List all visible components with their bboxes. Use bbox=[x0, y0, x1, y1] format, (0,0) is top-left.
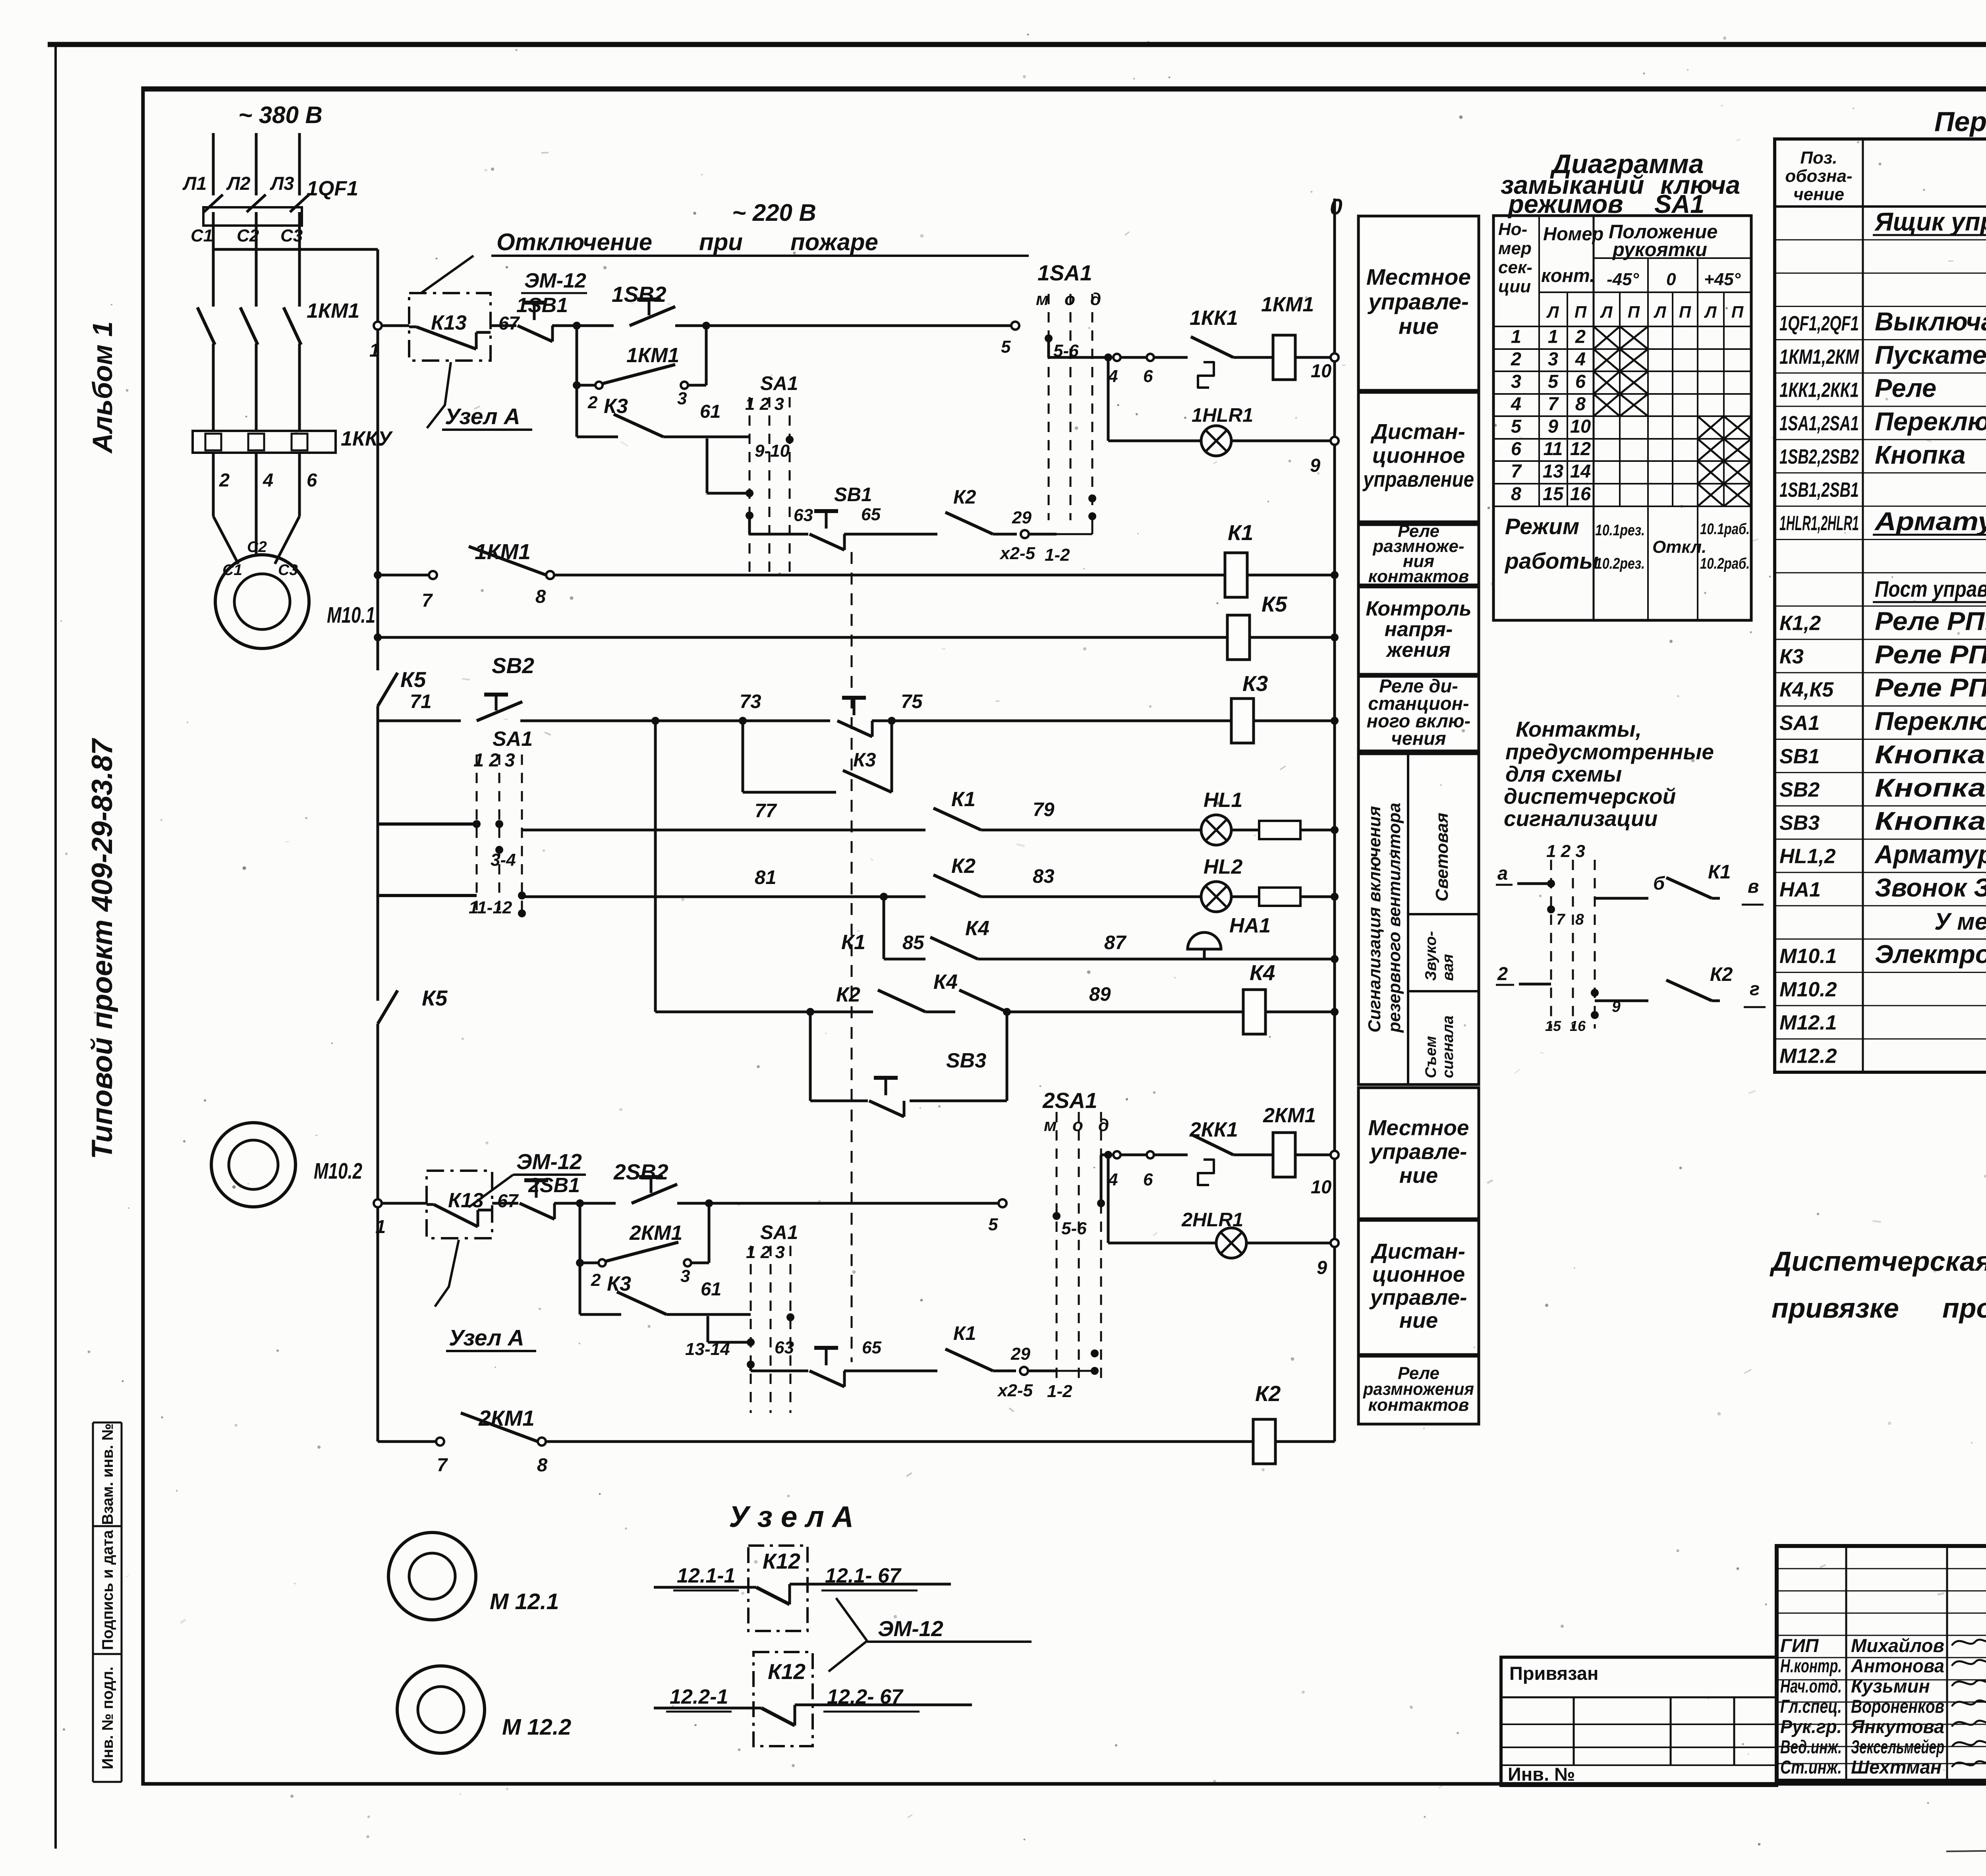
svg-text:управле-: управле- bbox=[1369, 1285, 1467, 1310]
svg-text:К3: К3 bbox=[853, 749, 876, 771]
svg-text:М12.2: М12.2 bbox=[1779, 1045, 1837, 1068]
svg-text:К3: К3 bbox=[607, 1272, 631, 1295]
svg-text:ние: ние bbox=[1399, 314, 1439, 339]
svg-text:1КМ1: 1КМ1 bbox=[475, 539, 531, 564]
svg-text:вая: вая bbox=[1439, 954, 1457, 981]
svg-text:Типовой проект 409-29-83.87: Типовой проект 409-29-83.87 bbox=[86, 738, 118, 1160]
svg-text:Кнопка КЕ-011УЗ, исполн. 4: Кнопка КЕ-011УЗ, исполн. 4 bbox=[1875, 807, 1986, 836]
svg-text:К1: К1 bbox=[841, 931, 865, 954]
svg-text:Л2: Л2 bbox=[226, 173, 250, 194]
svg-text:2КМ1: 2КМ1 bbox=[629, 1222, 682, 1245]
svg-text:С2: С2 bbox=[247, 538, 267, 556]
svg-text:К3: К3 bbox=[604, 395, 628, 418]
svg-text:Взам. инв. №: Взам. инв. № bbox=[99, 1423, 116, 1525]
svg-text:12: 12 bbox=[1570, 438, 1591, 459]
svg-text:1КМ1,2КМ: 1КМ1,2КМ bbox=[1779, 345, 1859, 369]
svg-text:обозна-: обозна- bbox=[1785, 166, 1852, 186]
svg-text:сигнала: сигнала bbox=[1439, 1015, 1457, 1078]
svg-text:3-4: 3-4 bbox=[491, 850, 516, 870]
svg-text:1SВ1,2SВ1: 1SВ1,2SВ1 bbox=[1779, 479, 1859, 502]
svg-text:П: П bbox=[1731, 303, 1744, 321]
svg-text:15: 15 bbox=[1545, 1018, 1561, 1034]
svg-text:работы: работы bbox=[1504, 548, 1599, 574]
svg-text:1SВ1: 1SВ1 bbox=[516, 294, 568, 317]
svg-text:Пускатель: Пускатель bbox=[1875, 340, 1986, 369]
svg-text:SА1: SА1 bbox=[1779, 712, 1820, 735]
svg-text:4: 4 bbox=[1575, 348, 1586, 369]
svg-text:1-2: 1-2 bbox=[1045, 545, 1070, 565]
svg-text:К2: К2 bbox=[951, 855, 976, 878]
svg-text:1SB2: 1SB2 bbox=[612, 282, 667, 307]
svg-text:контактов: контактов bbox=[1368, 1395, 1469, 1415]
svg-text:Привязан: Привязан bbox=[1509, 1663, 1598, 1684]
svg-text:Но-: Но- bbox=[1498, 220, 1527, 239]
svg-text:11: 11 bbox=[1544, 438, 1563, 459]
svg-text:У механизма: У механизма bbox=[1934, 908, 1986, 935]
svg-text:2: 2 bbox=[1575, 326, 1586, 347]
svg-text:Нач.отд.: Нач.отд. bbox=[1780, 1675, 1842, 1697]
svg-text:Контроль: Контроль bbox=[1366, 597, 1471, 620]
svg-text:Реле РПУ-2-М36420УЗБ, U~220В: Реле РПУ-2-М36420УЗБ, U~220В bbox=[1875, 607, 1986, 636]
svg-text:7: 7 bbox=[437, 1454, 448, 1475]
svg-text:10.1раб.: 10.1раб. bbox=[1700, 521, 1750, 538]
svg-text:1-2: 1-2 bbox=[1047, 1382, 1072, 1401]
svg-text:73: 73 bbox=[740, 691, 761, 712]
svg-text:1: 1 bbox=[375, 1216, 386, 1237]
svg-text:2: 2 bbox=[219, 469, 230, 490]
svg-text:К4: К4 bbox=[1250, 960, 1275, 985]
svg-text:ЭМ-12: ЭМ-12 bbox=[524, 269, 586, 292]
svg-text:63: 63 bbox=[794, 506, 813, 525]
svg-text:0: 0 bbox=[1330, 194, 1343, 220]
svg-text:Съем: Съем bbox=[1422, 1036, 1439, 1078]
svg-text:К1: К1 bbox=[1228, 520, 1253, 545]
svg-text:Режим: Режим bbox=[1505, 514, 1579, 539]
svg-text:М 12.1: М 12.1 bbox=[490, 1589, 559, 1614]
svg-text:8: 8 bbox=[537, 1454, 548, 1475]
svg-text:Л: Л bbox=[1704, 303, 1717, 321]
svg-text:8: 8 bbox=[535, 586, 546, 607]
svg-text:2SА1: 2SА1 bbox=[1042, 1088, 1097, 1113]
svg-text:К1: К1 bbox=[951, 788, 976, 811]
svg-text:чения: чения bbox=[1391, 728, 1446, 749]
svg-text:пожаре: пожаре bbox=[790, 229, 878, 255]
svg-text:К4,К5: К4,К5 bbox=[1779, 678, 1834, 701]
svg-text:Контакты,: Контакты, bbox=[1516, 717, 1642, 741]
svg-text:Л: Л bbox=[1546, 303, 1559, 321]
svg-text:1SA1: 1SA1 bbox=[1037, 261, 1092, 285]
svg-text:75: 75 bbox=[901, 691, 923, 712]
svg-text:SA1: SA1 bbox=[760, 373, 798, 394]
svg-text:С1: С1 bbox=[191, 226, 213, 245]
svg-text:79: 79 bbox=[1033, 799, 1055, 820]
svg-text:4: 4 bbox=[1511, 393, 1521, 414]
svg-text:К3: К3 bbox=[1779, 645, 1804, 668]
svg-text:напря-: напря- bbox=[1385, 618, 1453, 641]
svg-text:3: 3 bbox=[1511, 371, 1521, 392]
svg-text:С1: С1 bbox=[222, 562, 242, 579]
svg-text:5: 5 bbox=[1548, 371, 1559, 392]
svg-text:65: 65 bbox=[861, 505, 881, 524]
svg-text:Узел А: Узел А bbox=[445, 404, 520, 429]
svg-text:ГИП: ГИП bbox=[1780, 1635, 1819, 1656]
svg-text:SВ2: SВ2 bbox=[492, 653, 534, 678]
svg-text:SВ1: SВ1 bbox=[1779, 745, 1820, 768]
svg-text:К2: К2 bbox=[1710, 964, 1733, 985]
svg-text:15: 15 bbox=[1543, 483, 1564, 504]
svg-text:Вороненков: Вороненков bbox=[1851, 1696, 1944, 1717]
svg-text:управле-: управле- bbox=[1367, 289, 1469, 315]
svg-text:а: а bbox=[1497, 863, 1508, 884]
svg-text:77: 77 bbox=[755, 800, 777, 822]
svg-text:1КМ1: 1КМ1 bbox=[307, 299, 359, 322]
svg-text:о: о bbox=[1064, 290, 1075, 309]
svg-text:Инв. №: Инв. № bbox=[1508, 1764, 1575, 1785]
svg-text:Н.контр.: Н.контр. bbox=[1780, 1655, 1842, 1676]
svg-text:13: 13 bbox=[1543, 461, 1563, 482]
svg-text:К1: К1 bbox=[1708, 861, 1731, 883]
svg-text:9: 9 bbox=[1317, 1257, 1327, 1278]
svg-text:Л1: Л1 bbox=[182, 173, 207, 194]
svg-text:81: 81 bbox=[755, 867, 777, 888]
svg-text:0: 0 bbox=[1666, 270, 1676, 289]
svg-text:Сигнализация включения: Сигнализация включения bbox=[1365, 806, 1384, 1033]
svg-text:4: 4 bbox=[263, 469, 273, 490]
svg-text:д: д bbox=[1090, 290, 1101, 309]
svg-text:Вед.инж.: Вед.инж. bbox=[1780, 1736, 1842, 1757]
svg-text:SВ3: SВ3 bbox=[946, 1049, 986, 1072]
svg-text:12.2- 67: 12.2- 67 bbox=[827, 1685, 904, 1708]
svg-text:16: 16 bbox=[1570, 483, 1591, 504]
svg-text:Ст.инж.: Ст.инж. bbox=[1780, 1756, 1842, 1778]
svg-text:1 2 3: 1 2 3 bbox=[746, 1243, 785, 1262]
svg-text:Переключатель УП 5314-С398УЗ: Переключатель УП 5314-С398УЗ bbox=[1875, 706, 1986, 735]
svg-text:Диспетчерская: Диспетчерская bbox=[1770, 1246, 1986, 1277]
svg-text:12.2-1: 12.2-1 bbox=[670, 1685, 728, 1708]
svg-text:жения: жения bbox=[1385, 639, 1451, 662]
svg-text:71: 71 bbox=[410, 691, 432, 712]
svg-text:63: 63 bbox=[775, 1338, 794, 1357]
svg-text:Дистан-: Дистан- bbox=[1370, 419, 1465, 444]
svg-text:К1,2: К1,2 bbox=[1779, 612, 1821, 635]
svg-text:6: 6 bbox=[307, 469, 317, 490]
svg-text:д: д bbox=[1098, 1116, 1109, 1135]
svg-text:Гл.спец.: Гл.спец. bbox=[1780, 1696, 1842, 1717]
svg-text:К4: К4 bbox=[965, 917, 989, 940]
svg-text:Звуко-: Звуко- bbox=[1422, 931, 1439, 981]
svg-text:67: 67 bbox=[497, 1190, 519, 1211]
svg-text:НА1: НА1 bbox=[1229, 914, 1271, 937]
svg-text:НL1: НL1 bbox=[1204, 789, 1242, 812]
svg-text:ционное: ционное bbox=[1372, 443, 1465, 468]
svg-text:Поз.: Поз. bbox=[1800, 148, 1837, 168]
svg-text:предусмотренные: предусмотренные bbox=[1505, 739, 1714, 764]
svg-text:1: 1 bbox=[1548, 326, 1558, 347]
svg-text:2: 2 bbox=[1497, 963, 1508, 984]
svg-text:SВ3: SВ3 bbox=[1779, 812, 1820, 835]
svg-text:б: б bbox=[1653, 872, 1665, 894]
svg-text:2КМ1: 2КМ1 bbox=[478, 1406, 535, 1430]
svg-text:У з е л: У з е л bbox=[729, 1500, 824, 1533]
svg-text:М10.2: М10.2 bbox=[1779, 978, 1837, 1001]
svg-text:-45°: -45° bbox=[1607, 270, 1639, 289]
svg-text:7: 7 bbox=[1548, 393, 1559, 414]
svg-text:8: 8 bbox=[1575, 393, 1586, 414]
svg-text:10.1рез.: 10.1рез. bbox=[1595, 522, 1645, 539]
svg-text:13-14: 13-14 bbox=[685, 1339, 730, 1359]
svg-text:5: 5 bbox=[1511, 416, 1522, 437]
svg-text:ЭМ-12: ЭМ-12 bbox=[516, 1149, 582, 1174]
svg-text:85: 85 bbox=[902, 932, 924, 953]
svg-text:С3: С3 bbox=[278, 562, 298, 579]
svg-text:1КК1: 1КК1 bbox=[1190, 307, 1238, 330]
svg-text:Инв. № подл.: Инв. № подл. bbox=[99, 1667, 116, 1770]
svg-text:SА1: SА1 bbox=[760, 1222, 798, 1243]
svg-text:1КМ1: 1КМ1 bbox=[626, 344, 679, 367]
svg-text:Откл.: Откл. bbox=[1652, 537, 1706, 557]
svg-text:89: 89 bbox=[1089, 984, 1111, 1005]
svg-text:А: А bbox=[831, 1500, 854, 1533]
svg-text:SВ1: SВ1 bbox=[834, 484, 872, 506]
svg-text:2SВ2: 2SВ2 bbox=[613, 1160, 668, 1184]
svg-text:М10.2: М10.2 bbox=[314, 1158, 362, 1184]
svg-text:привязке: привязке bbox=[1772, 1293, 1899, 1324]
svg-text:Узел А: Узел А bbox=[449, 1325, 524, 1351]
svg-text:М10.1: М10.1 bbox=[327, 602, 375, 628]
svg-text:х2-5: х2-5 bbox=[997, 1381, 1033, 1400]
svg-text:управление: управление bbox=[1362, 467, 1474, 492]
svg-text:1 2 3: 1 2 3 bbox=[1546, 841, 1585, 861]
svg-text:К2: К2 bbox=[953, 486, 976, 508]
svg-text:при: при bbox=[699, 229, 743, 255]
svg-text:3: 3 bbox=[677, 389, 687, 408]
svg-text:Л: Л bbox=[1654, 303, 1667, 321]
svg-text:2: 2 bbox=[591, 1270, 601, 1290]
svg-text:5: 5 bbox=[988, 1215, 998, 1234]
svg-text:К5: К5 bbox=[400, 667, 427, 692]
svg-text:управле-: управле- bbox=[1369, 1139, 1467, 1164]
svg-text:К12: К12 bbox=[768, 1659, 806, 1684]
svg-text:Выключатель: Выключатель bbox=[1875, 307, 1986, 336]
svg-text:87: 87 bbox=[1104, 932, 1127, 953]
svg-text:61: 61 bbox=[701, 1278, 721, 1299]
svg-text:конт.: конт. bbox=[1541, 265, 1595, 286]
svg-text:Перечень: Перечень bbox=[1934, 106, 1986, 137]
svg-text:м: м bbox=[1036, 290, 1049, 309]
svg-text:11-12: 11-12 bbox=[469, 898, 512, 917]
svg-text:65: 65 bbox=[862, 1338, 881, 1357]
svg-text:10: 10 bbox=[1570, 416, 1591, 437]
svg-text:6: 6 bbox=[1511, 438, 1522, 459]
svg-text:Местное: Местное bbox=[1368, 1116, 1469, 1140]
svg-text:ционное: ционное bbox=[1372, 1262, 1465, 1287]
svg-text:+45°: +45° bbox=[1704, 270, 1741, 289]
svg-text:М12.1: М12.1 bbox=[1779, 1011, 1837, 1035]
svg-text:о: о bbox=[1072, 1116, 1083, 1135]
svg-text:НL2: НL2 bbox=[1204, 855, 1242, 878]
svg-text:5: 5 bbox=[1001, 337, 1011, 357]
svg-text:6: 6 bbox=[1143, 367, 1153, 386]
svg-text:НL1,2: НL1,2 bbox=[1779, 845, 1836, 868]
svg-text:С3: С3 bbox=[280, 226, 303, 245]
svg-text:9-10: 9-10 bbox=[755, 441, 790, 461]
svg-text:К4: К4 bbox=[933, 971, 958, 994]
svg-text:С2: С2 bbox=[237, 226, 259, 245]
svg-text:Световая: Световая bbox=[1432, 813, 1452, 901]
svg-text:Зексельмейер: Зексельмейер bbox=[1851, 1736, 1944, 1757]
svg-text:3: 3 bbox=[680, 1266, 690, 1286]
svg-text:~ 380 В: ~ 380 В bbox=[238, 102, 323, 128]
svg-text:Дистан-: Дистан- bbox=[1370, 1239, 1465, 1264]
svg-text:К13: К13 bbox=[431, 311, 467, 334]
svg-text:диспетчерской: диспетчерской bbox=[1504, 784, 1676, 809]
svg-text:Номер: Номер bbox=[1543, 223, 1603, 244]
svg-text:сек-: сек- bbox=[1498, 258, 1532, 277]
svg-text:1 2 3: 1 2 3 bbox=[473, 749, 515, 770]
svg-text:61: 61 bbox=[700, 401, 721, 422]
svg-text:Звонок ЗВП-220-М4: Звонок ЗВП-220-М4 bbox=[1875, 873, 1986, 902]
svg-text:2: 2 bbox=[1511, 348, 1521, 369]
svg-text:83: 83 bbox=[1033, 866, 1055, 887]
svg-text:6: 6 bbox=[1143, 1170, 1153, 1189]
svg-text:1НLR1,2НLR1: 1НLR1,2НLR1 bbox=[1779, 512, 1859, 535]
svg-text:ции: ции bbox=[1498, 277, 1531, 296]
svg-text:режимов: режимов bbox=[1507, 189, 1623, 218]
svg-text:10: 10 bbox=[1311, 1176, 1331, 1197]
svg-text:К1: К1 bbox=[953, 1323, 976, 1344]
svg-text:мер: мер bbox=[1498, 239, 1532, 258]
svg-text:рукоятки: рукоятки bbox=[1612, 239, 1707, 261]
svg-text:ние: ние bbox=[1399, 1308, 1438, 1333]
svg-text:2КМ1: 2КМ1 bbox=[1263, 1104, 1316, 1127]
svg-text:К3: К3 bbox=[1242, 671, 1268, 696]
svg-text:Кнопка КЕ-011УЗ, исполн. 5: Кнопка КЕ-011УЗ, исполн. 5 bbox=[1875, 773, 1986, 802]
svg-text:Л3: Л3 bbox=[270, 173, 294, 194]
svg-text:К5: К5 bbox=[422, 986, 448, 1010]
svg-text:К2: К2 bbox=[1255, 1381, 1281, 1406]
svg-text:10.2раб.: 10.2раб. bbox=[1700, 555, 1750, 572]
svg-text:чение: чение bbox=[1793, 185, 1844, 204]
svg-text:1QF1,2QF1: 1QF1,2QF1 bbox=[1779, 312, 1859, 335]
svg-text:1: 1 bbox=[1511, 326, 1521, 347]
svg-text:6: 6 bbox=[1575, 371, 1586, 392]
svg-text:10.2рез.: 10.2рез. bbox=[1595, 555, 1645, 572]
svg-text:10: 10 bbox=[1311, 360, 1331, 381]
svg-text:НА1: НА1 bbox=[1779, 878, 1821, 901]
svg-text:Л: Л bbox=[1600, 303, 1613, 321]
svg-text:ние: ние bbox=[1399, 1163, 1438, 1188]
svg-text:Антонова: Антонова bbox=[1851, 1655, 1944, 1676]
svg-text:резервного вентилятора: резервного вентилятора bbox=[1385, 803, 1404, 1033]
svg-text:Михайлов: Михайлов bbox=[1851, 1635, 1944, 1656]
svg-text:Местное: Местное bbox=[1366, 264, 1471, 290]
svg-text:Шехтман: Шехтман bbox=[1851, 1756, 1942, 1778]
svg-text:12.1-1: 12.1-1 bbox=[677, 1564, 735, 1587]
svg-text:1ККУ: 1ККУ bbox=[341, 427, 393, 450]
svg-text:1QF1: 1QF1 bbox=[307, 177, 358, 200]
svg-text:Реле: Реле bbox=[1875, 374, 1936, 403]
svg-text:М10.1: М10.1 bbox=[1779, 945, 1837, 968]
svg-text:Ящик управления Я5111-2274УХЛ: Ящик управления Я5111-2274УХЛ4 bbox=[1874, 207, 1986, 236]
svg-text:1SВ2,2SВ2: 1SВ2,2SВ2 bbox=[1779, 445, 1859, 468]
svg-text:5-6: 5-6 bbox=[1061, 1219, 1087, 1238]
svg-text:П: П bbox=[1628, 303, 1640, 321]
svg-text:Пост управления вентиляторами: Пост управления вентиляторами 10ПУ(12ПУ) bbox=[1875, 577, 1986, 602]
svg-text:16: 16 bbox=[1570, 1018, 1586, 1034]
svg-text:Арматура АМЕ321221У2 , U~220В: Арматура АМЕ321221У2 , U~220В bbox=[1874, 840, 1986, 869]
svg-text:Кнопка: Кнопка bbox=[1875, 440, 1966, 469]
svg-text:сигнализации: сигнализации bbox=[1504, 806, 1658, 831]
svg-text:7: 7 bbox=[422, 590, 433, 611]
svg-text:8: 8 bbox=[1511, 483, 1522, 504]
svg-text:29: 29 bbox=[1012, 508, 1032, 527]
svg-text:х2-5: х2-5 bbox=[999, 544, 1036, 563]
svg-text:2: 2 bbox=[587, 393, 598, 412]
svg-text:г: г bbox=[1750, 978, 1760, 999]
svg-text:1НLR1: 1НLR1 bbox=[1192, 405, 1253, 426]
svg-text:М 12.2: М 12.2 bbox=[502, 1714, 572, 1740]
svg-text:Отключение: Отключение bbox=[496, 229, 652, 255]
svg-text:7: 7 bbox=[1511, 461, 1522, 482]
svg-text:7: 7 bbox=[1556, 911, 1566, 928]
svg-text:1КК1,2КК1: 1КК1,2КК1 bbox=[1779, 379, 1859, 402]
svg-text:1 2 3: 1 2 3 bbox=[745, 394, 784, 414]
svg-text:1SА1,2SА1: 1SА1,2SА1 bbox=[1779, 412, 1859, 435]
svg-text:12.1- 67: 12.1- 67 bbox=[825, 1564, 902, 1587]
svg-text:SА1: SА1 bbox=[493, 728, 533, 751]
svg-text:К5: К5 bbox=[1262, 592, 1288, 616]
svg-text:П: П bbox=[1575, 303, 1587, 321]
svg-text:Кнопка КЕ-012УЗ, исполн. 3: Кнопка КЕ-012УЗ, исполн. 3 bbox=[1875, 740, 1986, 769]
svg-text:SА1: SА1 bbox=[1654, 189, 1704, 218]
svg-text:8: 8 bbox=[1575, 911, 1584, 928]
svg-text:67: 67 bbox=[498, 313, 520, 334]
svg-text:в: в bbox=[1748, 876, 1759, 897]
svg-text:проекта.: проекта. bbox=[1942, 1293, 1986, 1324]
svg-text:Подпись и дата: Подпись и дата bbox=[99, 1530, 116, 1650]
svg-text:Реле РПУ-2-36220УЗБ , U~220В: Реле РПУ-2-36220УЗБ , U~220В bbox=[1875, 673, 1986, 702]
svg-text:1: 1 bbox=[369, 340, 380, 361]
svg-text:Кузьмин: Кузьмин bbox=[1851, 1675, 1930, 1697]
svg-text:14: 14 bbox=[1570, 461, 1591, 482]
svg-text:К2: К2 bbox=[836, 983, 860, 1006]
svg-text:ЭМ-12: ЭМ-12 bbox=[878, 1616, 943, 1641]
svg-text:Янкутова: Янкутова bbox=[1850, 1716, 1944, 1737]
svg-text:К12: К12 bbox=[763, 1549, 800, 1573]
svg-text:П: П bbox=[1679, 303, 1691, 321]
svg-text:Реле РПУ-2-36400УЗБ , U~220В: Реле РПУ-2-36400УЗБ , U~220В bbox=[1875, 640, 1986, 669]
svg-text:SВ2: SВ2 bbox=[1779, 778, 1820, 801]
svg-text:м: м bbox=[1044, 1116, 1057, 1135]
svg-text:для схемы: для схемы bbox=[1505, 762, 1622, 786]
svg-text:Электродвигатель: Электродвигатель bbox=[1875, 940, 1986, 969]
svg-text:Переключатель: Переключатель bbox=[1875, 407, 1986, 436]
svg-text:29: 29 bbox=[1010, 1344, 1030, 1364]
svg-text:Арматура светосигнальная: Арматура светосигнальная bbox=[1874, 507, 1986, 536]
svg-text:контактов: контактов bbox=[1368, 567, 1469, 586]
svg-text:3: 3 bbox=[1548, 348, 1558, 369]
svg-text:~ 220 В: ~ 220 В bbox=[732, 199, 816, 226]
svg-text:9: 9 bbox=[1548, 416, 1558, 437]
svg-text:Альбом 1: Альбом 1 bbox=[87, 321, 118, 454]
